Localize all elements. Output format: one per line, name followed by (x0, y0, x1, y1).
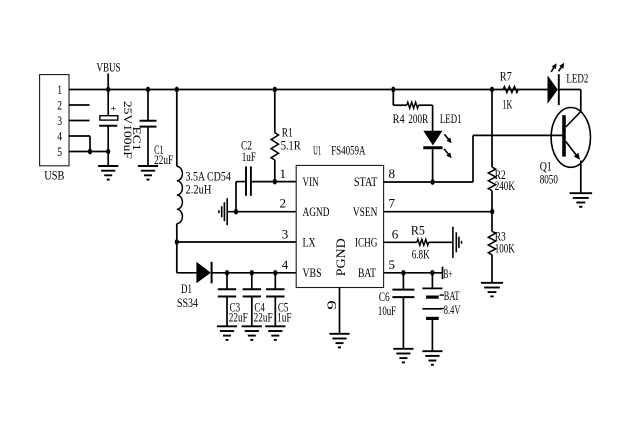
svg-text:2: 2 (280, 196, 287, 211)
svg-text:5.1R: 5.1R (281, 137, 301, 152)
svg-text:9: 9 (324, 300, 339, 310)
svg-text:100K: 100K (495, 241, 515, 256)
svg-text:D1: D1 (181, 281, 192, 296)
svg-text:6: 6 (392, 227, 399, 242)
svg-text:3: 3 (282, 226, 289, 241)
svg-text:PGND: PGND (333, 238, 348, 276)
svg-text:1: 1 (57, 82, 62, 97)
svg-text:10uF: 10uF (378, 303, 396, 318)
svg-text:200R: 200R (408, 111, 428, 126)
svg-text:VIN: VIN (303, 174, 320, 189)
svg-text:5: 5 (57, 144, 62, 159)
svg-text:4: 4 (282, 257, 289, 272)
svg-text:7: 7 (389, 196, 396, 211)
svg-text:LED2: LED2 (566, 71, 588, 86)
svg-text:2.2uH: 2.2uH (186, 182, 212, 197)
svg-text:+: + (110, 103, 116, 115)
svg-text:R4: R4 (393, 111, 405, 126)
svg-text:LED1: LED1 (440, 111, 462, 126)
svg-text:AGND: AGND (303, 204, 330, 219)
svg-text:8.4V: 8.4V (444, 302, 461, 317)
svg-text:5: 5 (389, 257, 396, 272)
svg-text:6.8K: 6.8K (412, 247, 430, 262)
svg-text:1uF: 1uF (277, 310, 292, 325)
svg-text:8: 8 (389, 166, 396, 181)
svg-text:U1: U1 (313, 143, 321, 158)
svg-text:VBS: VBS (303, 265, 322, 280)
svg-text:R7: R7 (500, 69, 512, 84)
svg-text:3: 3 (57, 113, 62, 128)
svg-text:4: 4 (57, 128, 62, 143)
svg-text:1K: 1K (502, 96, 512, 111)
svg-text:USB: USB (44, 168, 64, 183)
svg-text:2: 2 (57, 97, 62, 112)
svg-text:R5: R5 (411, 222, 425, 237)
svg-text:VSEN: VSEN (353, 204, 378, 219)
svg-text:BAT: BAT (444, 288, 460, 303)
svg-text:ICHG: ICHG (355, 234, 378, 249)
svg-text:1: 1 (280, 166, 287, 181)
svg-text:BAT: BAT (358, 265, 376, 280)
svg-text:FS4059A: FS4059A (331, 143, 366, 158)
svg-text:22uF: 22uF (254, 310, 273, 325)
svg-text:EC1: EC1 (130, 127, 142, 151)
svg-text:VBUS: VBUS (97, 60, 121, 75)
svg-text:B+: B+ (444, 266, 453, 281)
svg-text:1uF: 1uF (242, 149, 256, 164)
svg-text:SS34: SS34 (177, 295, 198, 310)
svg-text:22uF: 22uF (154, 152, 173, 167)
svg-text:LX: LX (303, 234, 316, 249)
svg-text:STAT: STAT (354, 174, 378, 189)
svg-text:240K: 240K (495, 178, 516, 193)
svg-text:22uF: 22uF (229, 310, 248, 325)
svg-text:8050: 8050 (540, 171, 558, 186)
